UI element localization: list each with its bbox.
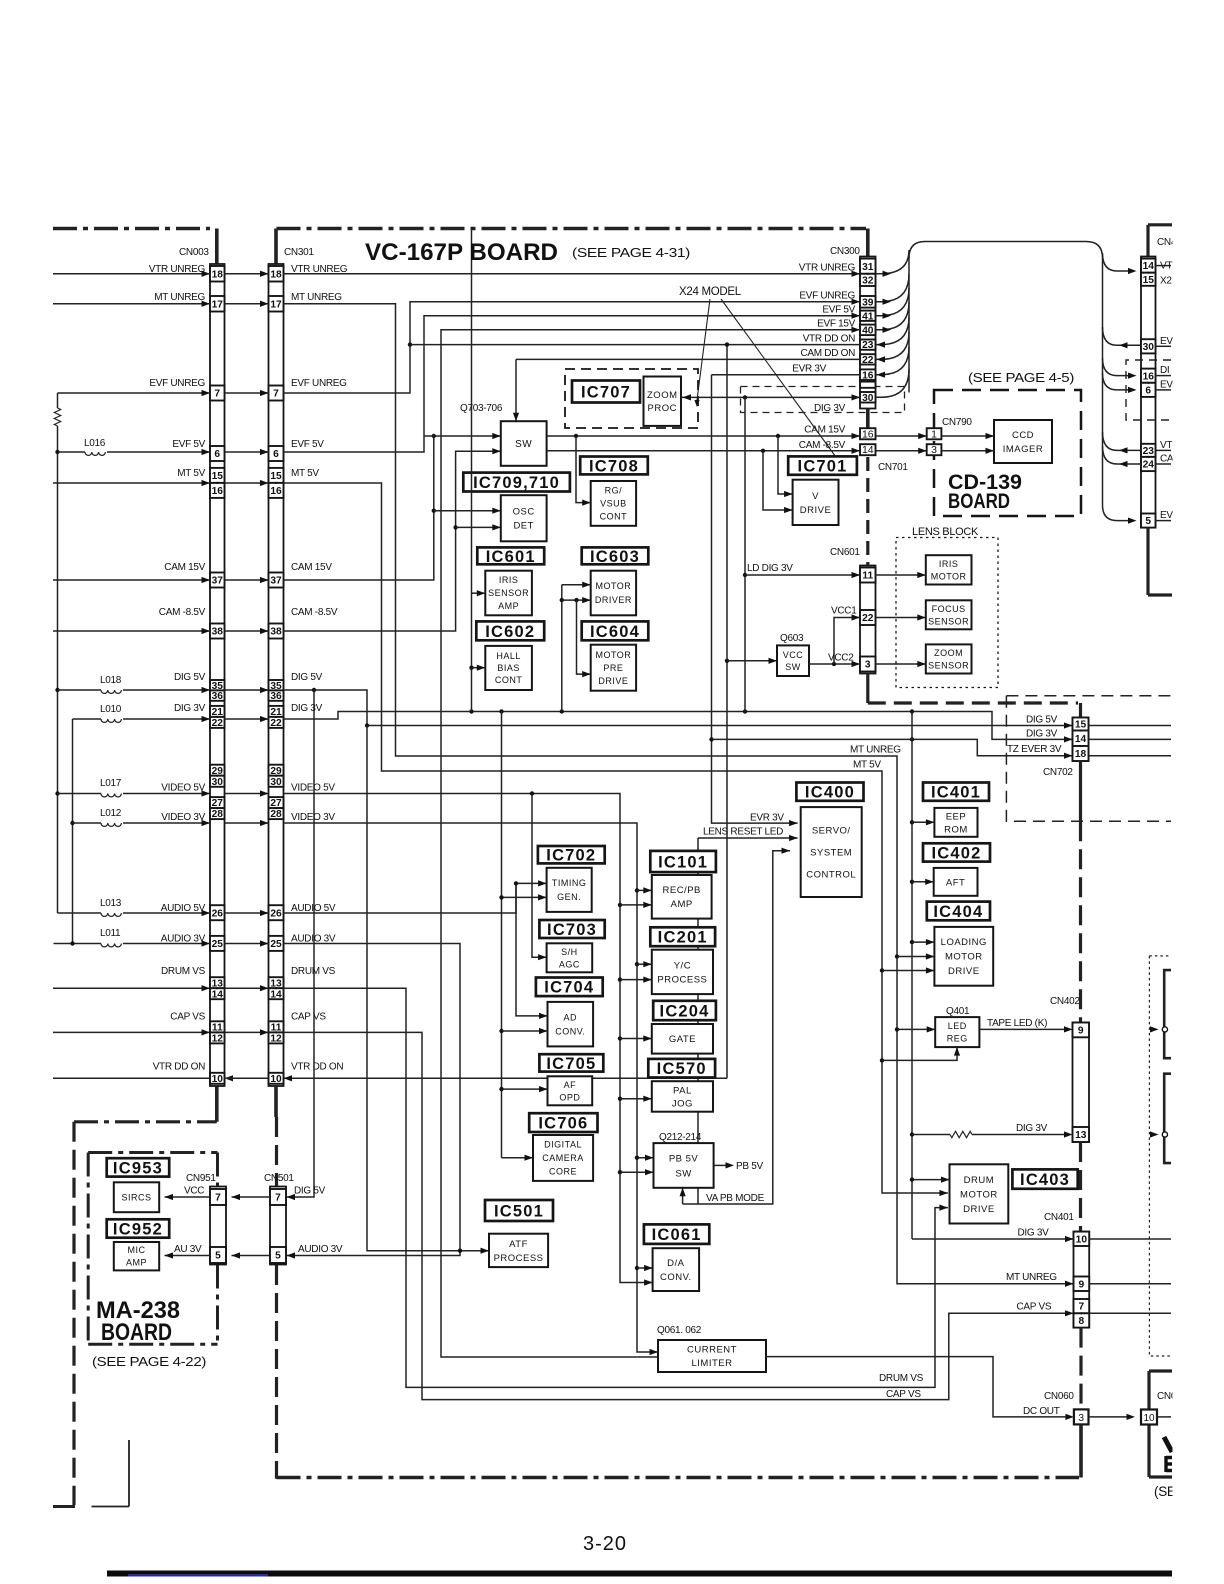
svg-text:CN003: CN003	[179, 247, 209, 258]
wire drop to ATF PROCESS	[367, 726, 489, 1251]
svg-text:9: 9	[1079, 1279, 1085, 1290]
svg-text:DIG 5V: DIG 5V	[294, 1186, 326, 1197]
wire LENS RESET LED	[698, 837, 798, 839]
wire CN300 pin31 out	[876, 250, 910, 274]
svg-text:15: 15	[270, 471, 282, 482]
svg-text:(SEE PAGE 4-22): (SEE PAGE 4-22)	[92, 1354, 206, 1369]
IC602 label	[476, 621, 544, 640]
svg-text:IC402: IC402	[931, 844, 981, 862]
svg-text:L010: L010	[100, 704, 122, 715]
svg-text:DC OUT: DC OUT	[1023, 1406, 1060, 1417]
wire DIG 3V to ZOOM PROC and CN300 pin30	[681, 396, 860, 398]
svg-text:IC501: IC501	[494, 1202, 544, 1220]
left board top border (dash-dot)	[53, 227, 210, 230]
wire to DIGITAL CAMERA CORE	[502, 1157, 534, 1159]
svg-text:IC707: IC707	[581, 383, 631, 401]
svg-text:8: 8	[1079, 1316, 1085, 1327]
svg-text:Q703-706: Q703-706	[460, 403, 503, 414]
block S/H AGC	[547, 943, 593, 972]
svg-text:DRUM VS: DRUM VS	[161, 966, 206, 977]
wire feeds MOTOR DRIVER	[561, 585, 563, 712]
svg-text:(SEE PAGE 4-31): (SEE PAGE 4-31)	[572, 245, 690, 260]
svg-text:DIG 3V: DIG 3V	[1016, 1123, 1048, 1134]
wire to LOADING MOTOR input 3	[882, 970, 934, 972]
branch to CN4 pin6	[1103, 373, 1131, 390]
wire to LOADING MOTOR input 2	[897, 956, 934, 958]
wire TAPE LED to CN402 pin9	[979, 1028, 1066, 1030]
svg-text:PB 5V: PB 5V	[669, 1153, 699, 1164]
IC705 label	[539, 1054, 603, 1071]
wire to GATE	[620, 1038, 652, 1040]
svg-text:EEP: EEP	[946, 811, 967, 822]
wire to OSC DET input 1	[434, 510, 501, 512]
svg-text:7: 7	[275, 1193, 281, 1204]
wire CAM DD ON to SW	[516, 358, 860, 360]
wire to AFT	[912, 881, 934, 883]
svg-text:CONV.: CONV.	[555, 1026, 585, 1036]
block DRUM MOTOR DRIVE	[950, 1164, 1009, 1223]
block ZOOM PROC	[644, 377, 682, 426]
svg-text:LENS RESET LED: LENS RESET LED	[703, 827, 783, 838]
svg-text:IC704: IC704	[544, 979, 594, 997]
svg-text:CURRENT: CURRENT	[687, 1345, 737, 1356]
wire VCC SW input	[727, 660, 777, 662]
wire EVF 15V to CN300 pin40 and DC OUT drop	[441, 330, 860, 1357]
IC706 label	[529, 1113, 597, 1132]
svg-text:EVR 3V: EVR 3V	[792, 364, 826, 375]
svg-text:AGC: AGC	[559, 959, 580, 969]
left board bottom border (dash-dot)	[74, 1120, 217, 1123]
svg-text:EVF 5V: EVF 5V	[291, 439, 324, 450]
open circle pin upper	[1150, 1026, 1159, 1032]
svg-text:IC404: IC404	[933, 903, 983, 921]
svg-text:LOADING: LOADING	[941, 937, 987, 948]
svg-text:EVF UNREG: EVF UNREG	[291, 378, 347, 389]
block EEP ROM	[934, 808, 977, 837]
IC952 label	[107, 1219, 170, 1237]
wire DIG 5V drop to CN501	[287, 690, 315, 1197]
bundle vertical left	[908, 256, 910, 393]
svg-text:AU 3V: AU 3V	[174, 1244, 202, 1255]
svg-text:SYSTEM: SYSTEM	[810, 847, 852, 858]
svg-text:40: 40	[862, 325, 874, 336]
wire DIG 3V to CN401 pin10	[912, 1238, 1074, 1240]
IC703 label	[539, 920, 604, 938]
svg-text:3: 3	[931, 444, 937, 456]
wire CAM 15V riser	[284, 436, 434, 580]
wire to Y/C PROCESS input 1	[637, 963, 652, 965]
IC701 label	[788, 456, 857, 474]
svg-text:EV: EV	[1160, 336, 1173, 347]
wire EVR 3V to servo	[712, 374, 861, 376]
svg-text:18: 18	[270, 269, 282, 280]
svg-text:SIRCS: SIRCS	[121, 1192, 151, 1202]
svg-text:REG: REG	[947, 1034, 968, 1044]
block PAL JOG	[652, 1081, 713, 1112]
signal labels right of CN301	[291, 264, 348, 1073]
svg-text:38: 38	[212, 627, 224, 638]
svg-text:IC601: IC601	[486, 548, 536, 566]
connector CN4xx	[1141, 257, 1156, 528]
svg-text:CN401: CN401	[1044, 1212, 1074, 1223]
CN301 bottom stub	[274, 1086, 278, 1117]
wire CAM -8.5V to CN790 pin3	[876, 450, 927, 452]
IC953 label	[107, 1158, 170, 1176]
wire CN300 pin41 out	[876, 288, 910, 316]
svg-text:LED: LED	[948, 1021, 967, 1031]
svg-text:SW: SW	[785, 662, 801, 672]
svg-text:HALL: HALL	[496, 651, 521, 661]
block MIC AMP	[114, 1242, 159, 1270]
svg-text:IC204: IC204	[660, 1002, 710, 1020]
svg-text:38: 38	[270, 627, 282, 638]
svg-text:MOTOR: MOTOR	[595, 581, 631, 591]
svg-text:FOCUS: FOCUS	[932, 604, 966, 614]
wire VCC to SIRCS	[165, 1196, 211, 1198]
svg-text:36: 36	[270, 691, 282, 702]
connector CN401	[1074, 1232, 1090, 1328]
IC704 label	[536, 978, 603, 997]
svg-text:AUDIO 3V: AUDIO 3V	[298, 1244, 343, 1255]
svg-text:VIDEO 3V: VIDEO 3V	[291, 812, 335, 823]
wire DIG 3V with resistor to pin13	[912, 1134, 950, 1136]
svg-text:V: V	[812, 491, 819, 502]
wire DIG 3V vertical	[744, 397, 746, 711]
svg-text:15: 15	[1075, 720, 1087, 731]
board edge below CN701 (long dash)	[866, 457, 869, 566]
svg-text:10: 10	[1076, 1234, 1088, 1245]
block LOADING MOTOR DRIVE	[934, 927, 993, 986]
wire into CN300 pin23	[876, 317, 910, 345]
svg-text:15: 15	[1143, 275, 1155, 286]
wire drop to AD CONV input 1	[516, 883, 548, 1016]
svg-text:PB 5V: PB 5V	[736, 1161, 763, 1172]
wire MT 5V trunk	[284, 483, 948, 1193]
svg-text:10: 10	[212, 1074, 224, 1085]
connector CN003	[210, 264, 225, 1086]
svg-text:CCD: CCD	[1012, 430, 1034, 441]
svg-text:SW: SW	[675, 1168, 691, 1179]
IC404 label	[927, 902, 990, 921]
bracket connector upper	[1164, 970, 1171, 1058]
svg-text:PAL: PAL	[673, 1085, 692, 1096]
IC403 label	[1012, 1169, 1077, 1188]
block AFT	[934, 868, 978, 896]
cross wires CN003 to CN301	[225, 271, 269, 1036]
svg-text:VIDEO 5V: VIDEO 5V	[291, 783, 335, 794]
svg-text:IC706: IC706	[538, 1115, 588, 1133]
svg-text:IC061: IC061	[652, 1226, 702, 1244]
svg-text:9: 9	[1078, 1025, 1084, 1036]
wire VTR DD ON trunk	[410, 344, 860, 346]
svg-text:MT 5V: MT 5V	[177, 468, 205, 479]
wire DIG3V to TIMING GEN input 2	[502, 896, 547, 898]
wire into CN300 pin22	[876, 332, 910, 359]
svg-text:CN301: CN301	[284, 247, 314, 258]
svg-text:30: 30	[862, 393, 874, 404]
IC061 label	[644, 1224, 709, 1244]
svg-text:28: 28	[270, 809, 282, 820]
svg-text:SENSOR: SENSOR	[488, 588, 529, 598]
svg-text:37: 37	[212, 576, 224, 587]
svg-text:CONV.: CONV.	[660, 1272, 692, 1283]
svg-text:18: 18	[212, 269, 224, 280]
svg-text:16: 16	[1143, 371, 1155, 382]
wire to Y/C PROCESS input 2	[620, 979, 652, 981]
branch from CN4 pin30	[1103, 327, 1142, 345]
svg-text:10: 10	[270, 1074, 282, 1085]
CN300 riser from top border	[866, 229, 870, 257]
svg-text:VIDEO 3V: VIDEO 3V	[161, 812, 205, 823]
svg-text:IC705: IC705	[546, 1055, 596, 1073]
svg-text:DIG 5V: DIG 5V	[174, 672, 206, 683]
connector CN702	[1073, 718, 1089, 762]
IC708 label	[580, 457, 648, 475]
svg-text:16: 16	[212, 486, 224, 497]
svg-text:12: 12	[212, 1033, 224, 1044]
wire to REC/PB AMP input 2	[620, 904, 652, 906]
svg-text:OSC: OSC	[513, 507, 535, 518]
VC-167P connector riser CN301	[274, 229, 278, 267]
svg-text:DIG 3V: DIG 3V	[1026, 729, 1058, 740]
svg-text:DIG 3V: DIG 3V	[174, 703, 206, 714]
svg-text:BOARD: BOARD	[101, 1319, 172, 1346]
svg-text:14: 14	[1143, 261, 1155, 272]
svg-text:LD DIG 3V: LD DIG 3V	[747, 563, 793, 574]
branch from CN4 pin24	[1103, 446, 1142, 464]
wire CAM -8.5V feed	[53, 630, 210, 632]
svg-text:6: 6	[273, 449, 279, 460]
svg-text:AMP: AMP	[498, 601, 519, 611]
wire CAM 15V to CN790 pin1	[876, 435, 927, 437]
svg-text:CAMERA: CAMERA	[542, 1153, 584, 1163]
block OSC DET	[501, 495, 547, 541]
svg-text:CONTROL: CONTROL	[806, 869, 856, 880]
svg-text:PRE: PRE	[603, 663, 623, 673]
svg-text:VCC: VCC	[783, 650, 804, 660]
wire to LED REG	[897, 1028, 935, 1030]
block HALL BIAS CONT	[485, 646, 532, 690]
svg-text:EV: EV	[1160, 510, 1173, 521]
IC204 label	[653, 1001, 716, 1020]
svg-text:24: 24	[1143, 460, 1155, 471]
svg-text:IC703: IC703	[547, 921, 597, 939]
wire DRUM VS feed	[53, 987, 210, 989]
svg-text:30: 30	[270, 777, 282, 788]
wire AUDIO 3V to CN501	[284, 944, 461, 1256]
svg-text:30: 30	[212, 777, 224, 788]
svg-text:TAPE LED (K): TAPE LED (K)	[987, 1018, 1047, 1029]
svg-text:DRIVE: DRIVE	[963, 1204, 995, 1215]
wire to D/A CONV input 1	[637, 1267, 653, 1269]
svg-text:SENSOR: SENSOR	[928, 616, 969, 626]
svg-text:IC604: IC604	[590, 623, 640, 641]
svg-text:VCC1: VCC1	[831, 606, 857, 617]
svg-text:10: 10	[1143, 1413, 1155, 1424]
wire VTR UNREG feed	[53, 273, 210, 275]
svg-text:ROM: ROM	[944, 824, 968, 835]
svg-text:GEN.: GEN.	[557, 892, 581, 902]
connector CN790	[927, 428, 942, 439]
svg-text:MOTOR: MOTOR	[931, 571, 967, 581]
svg-text:GATE: GATE	[669, 1034, 696, 1045]
block DIGITAL CAMERA CORE	[533, 1135, 593, 1181]
svg-text:16: 16	[862, 428, 874, 440]
svg-text:DIGITAL: DIGITAL	[544, 1140, 582, 1150]
svg-text:CAM 15V: CAM 15V	[804, 425, 845, 436]
svg-text:EVF UNREG: EVF UNREG	[149, 378, 205, 389]
svg-text:MOTOR: MOTOR	[945, 952, 983, 963]
wire DIG 5V rail	[284, 690, 1073, 726]
wire CN300 pin40 out	[876, 302, 910, 330]
svg-text:BOARD: BOARD	[948, 490, 1010, 513]
wire VTR DD ON to left	[53, 1077, 210, 1079]
svg-text:AF: AF	[564, 1080, 577, 1090]
svg-text:RG/: RG/	[605, 486, 623, 496]
board edge horizontal long-dash to CN702	[868, 701, 1078, 704]
svg-text:26: 26	[212, 908, 224, 919]
svg-text:DI: DI	[1160, 365, 1169, 376]
svg-text:CN402: CN402	[1050, 996, 1080, 1007]
wire AU 3V CN501 to CN951	[232, 1255, 271, 1257]
lens block dotted outline	[896, 538, 998, 688]
wire CAM -8.5V riser to SW input 2	[284, 451, 501, 631]
svg-text:IC953: IC953	[113, 1159, 163, 1177]
svg-text:26: 26	[270, 908, 282, 919]
IC604 label	[582, 621, 649, 640]
block Y/C PROCESS	[652, 950, 713, 994]
svg-text:14: 14	[1075, 734, 1087, 745]
signal labels left of CN003	[149, 264, 206, 1073]
open circle pin lower	[1150, 1131, 1159, 1137]
VC-167P board top border (dash-dot)	[277, 227, 867, 230]
svg-text:AFT: AFT	[946, 877, 965, 888]
svg-text:Q603: Q603	[780, 633, 804, 644]
block MOTOR DRIVER	[591, 571, 636, 616]
svg-text:14: 14	[270, 989, 282, 1000]
IC603 label	[582, 547, 649, 564]
CN702 pin out wires	[1089, 725, 1172, 727]
wire to V DRIVE input 1	[778, 436, 793, 494]
svg-text:OPD: OPD	[559, 1092, 580, 1102]
wire CN601 pin22 to FOCUS SENSOR	[876, 617, 926, 619]
svg-text:CAP VS: CAP VS	[1017, 1302, 1052, 1313]
svg-text:(SEE PAGE 4-5): (SEE PAGE 4-5)	[968, 370, 1074, 385]
block FOCUS SENSOR	[926, 600, 972, 629]
svg-text:16: 16	[862, 370, 874, 381]
svg-text:TIMING: TIMING	[552, 878, 587, 888]
right board pin 10	[1141, 1410, 1157, 1425]
branch from CN4 pin23	[1103, 432, 1142, 450]
svg-text:25: 25	[212, 939, 224, 950]
svg-text:5: 5	[275, 1251, 281, 1262]
wire CN060 pin3 to right board pin10	[1089, 1416, 1130, 1418]
board edge long-dash CN401 to CN060	[1079, 1328, 1082, 1410]
svg-text:CONT: CONT	[600, 512, 628, 522]
svg-text:IC708: IC708	[589, 457, 639, 475]
connector CN301	[269, 264, 284, 1086]
svg-text:36: 36	[212, 691, 224, 702]
svg-text:L018: L018	[100, 675, 122, 686]
svg-text:CN601: CN601	[830, 547, 860, 558]
svg-text:JOG: JOG	[672, 1098, 693, 1109]
svg-text:CAM DD ON: CAM DD ON	[800, 348, 855, 359]
svg-text:IC602: IC602	[485, 623, 535, 641]
wire TZ EVER 3V rail	[712, 739, 1073, 755]
dashed board box around CN702	[1006, 695, 1171, 697]
IC401 label	[923, 783, 989, 801]
svg-text:7: 7	[214, 389, 220, 400]
svg-text:18: 18	[1075, 749, 1087, 760]
wire MT UNREG feed	[53, 303, 210, 305]
svg-text:31: 31	[862, 262, 874, 273]
wire AUDIO 5V to TIMING GEN	[284, 883, 547, 913]
block TIMING GEN	[547, 868, 592, 912]
dashed X24-option box at CN300 pin 30	[741, 387, 905, 413]
wire servo feedback from VA PB MODE	[683, 851, 790, 1204]
wire to DRUM MOTOR input 1	[912, 1179, 950, 1181]
svg-text:CAM -8.5V: CAM -8.5V	[291, 607, 338, 618]
svg-text:MT 5V: MT 5V	[853, 760, 881, 771]
svg-text:VCC2: VCC2	[828, 653, 854, 664]
svg-text:6: 6	[1145, 385, 1151, 396]
svg-text:CN790: CN790	[942, 417, 972, 428]
block CURRENT LIMITER	[658, 1340, 766, 1372]
IC201 label	[650, 927, 715, 946]
CN003 bottom stub	[215, 1086, 219, 1122]
svg-text:EVF 5V: EVF 5V	[822, 305, 855, 316]
svg-text:CAM -8.5V: CAM -8.5V	[159, 607, 206, 618]
svg-text:CAM 15V: CAM 15V	[291, 562, 332, 573]
svg-text:BIAS: BIAS	[497, 663, 520, 673]
svg-text:13: 13	[1075, 1130, 1087, 1141]
svg-text:EVF 15V: EVF 15V	[817, 319, 856, 330]
wire VTR DD ON between connectors	[225, 1077, 269, 1079]
svg-text:IC702: IC702	[546, 847, 596, 865]
wire to PB 5V SW input 2	[620, 1171, 654, 1173]
wire AU 3V to MIC AMP	[165, 1255, 211, 1257]
wire MT UNREG trunk	[284, 304, 1074, 1284]
svg-text:37: 37	[270, 576, 282, 587]
svg-text:Q061. 062: Q061. 062	[657, 1325, 702, 1336]
svg-text:VC-167P BOARD: VC-167P BOARD	[365, 239, 558, 266]
wire CAM -8.5V row from SW	[547, 450, 860, 452]
svg-text:IC403: IC403	[1020, 1171, 1070, 1189]
svg-text:DET: DET	[513, 521, 534, 532]
bracket connector lower	[1164, 1074, 1171, 1163]
wire EVF UNREG feed	[58, 392, 211, 394]
svg-text:12: 12	[270, 1033, 282, 1044]
CN4 board border	[1148, 223, 1172, 226]
wire to OSC DET input 2	[456, 526, 501, 528]
CN4 pin stub wires	[1156, 266, 1172, 521]
svg-text:IMAGER: IMAGER	[1003, 444, 1043, 455]
VC-167P left border (long dash)	[275, 1117, 278, 1186]
svg-text:CN701: CN701	[878, 462, 908, 473]
signal labels left of CN300	[792, 263, 855, 375]
left board connector riser CN003	[215, 229, 219, 267]
wire VA PB MODE arrow	[682, 1188, 684, 1204]
svg-text:DIG 3V: DIG 3V	[1018, 1228, 1050, 1239]
svg-text:DRIVE: DRIVE	[800, 505, 832, 516]
CN4 pin labels (cut)	[1160, 261, 1174, 522]
svg-text:MT UNREG: MT UNREG	[291, 292, 342, 303]
svg-text:CAP VS: CAP VS	[170, 1011, 205, 1022]
switch block SW Q703-706	[501, 421, 547, 466]
board edge below CN601	[866, 674, 869, 704]
svg-text:25: 25	[270, 939, 282, 950]
svg-text:PROCESS: PROCESS	[494, 1253, 544, 1264]
